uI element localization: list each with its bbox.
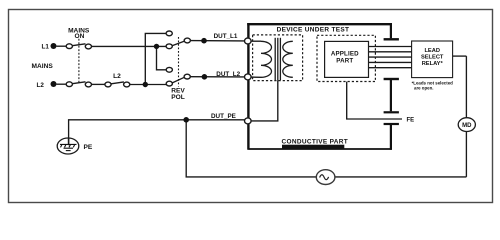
svg-text:LEAD: LEAD [424,48,439,54]
svg-text:L2: L2 [113,73,121,80]
svg-text:APPLIED: APPLIED [331,50,359,57]
svg-text:POL: POL [171,94,185,101]
svg-text:CONDUCTIVE PART: CONDUCTIVE PART [282,138,349,145]
svg-text:DEVICE UNDER TEST: DEVICE UNDER TEST [277,26,350,33]
svg-text:MAINS: MAINS [32,63,54,70]
svg-text:PE: PE [84,144,93,151]
svg-text:DUT_L1: DUT_L1 [214,33,238,40]
svg-text:L1: L1 [42,43,50,50]
svg-text:MD: MD [462,123,472,129]
svg-text:DUT_PE: DUT_PE [211,113,236,120]
svg-text:are open.: are open. [414,85,434,90]
svg-text:L2: L2 [37,82,45,89]
svg-text:RELAY*: RELAY* [422,61,444,67]
svg-text:PART: PART [336,57,353,64]
svg-text:DUT_L2: DUT_L2 [216,71,240,78]
svg-text:SELECT: SELECT [421,55,444,61]
svg-text:FE: FE [407,117,415,123]
svg-text:ON: ON [75,33,85,40]
